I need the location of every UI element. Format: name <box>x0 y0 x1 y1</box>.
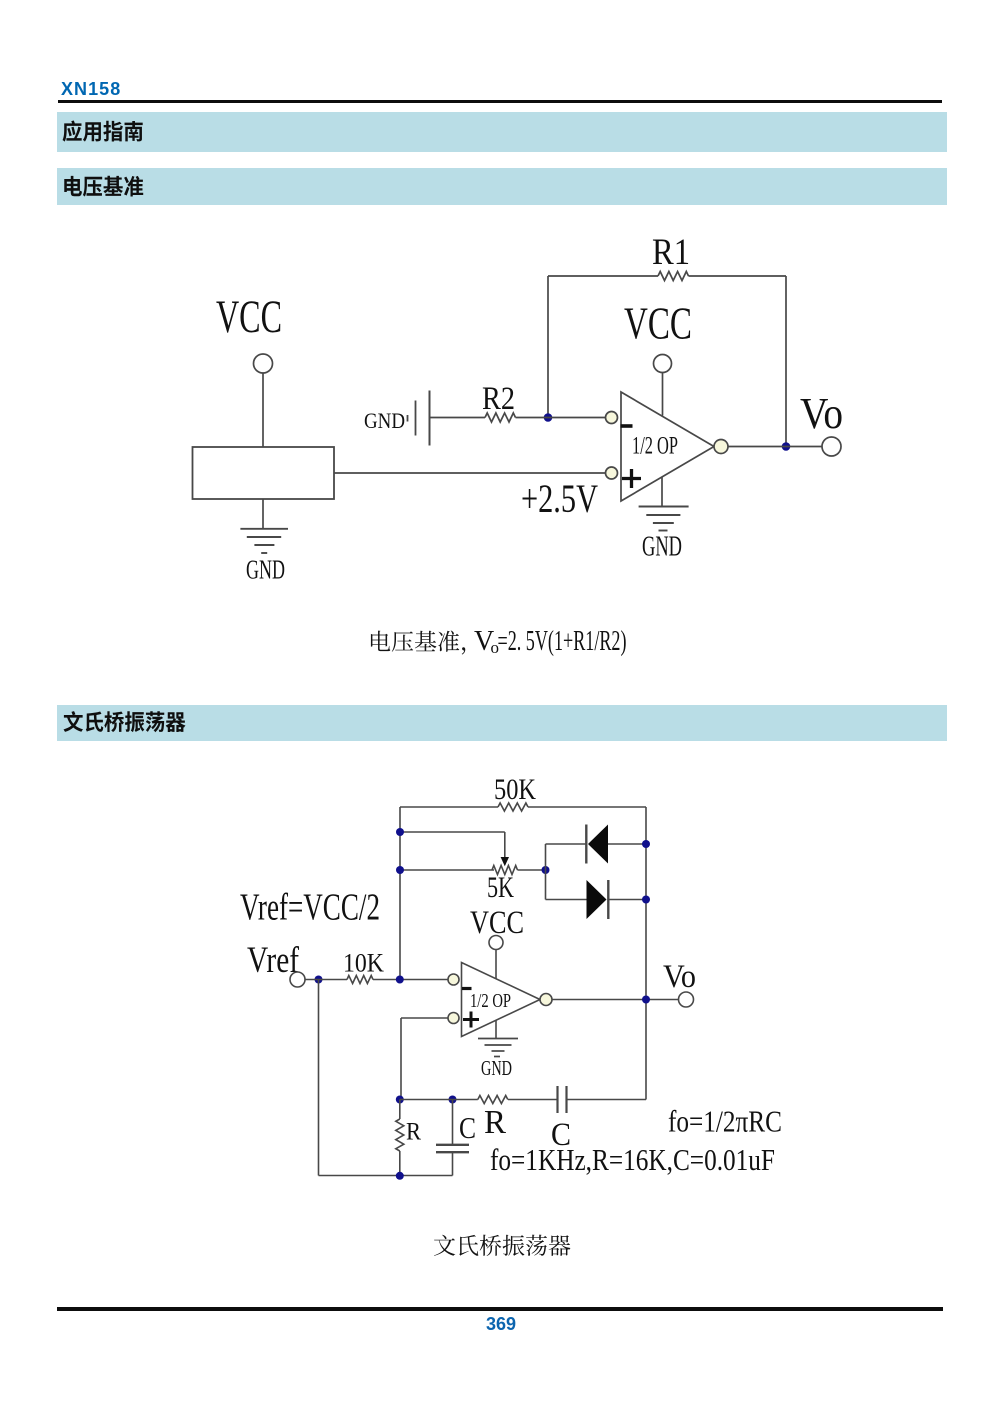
wire <box>689 275 787 277</box>
svg-text:GND: GND <box>642 532 682 563</box>
wire <box>400 806 498 808</box>
wire <box>318 980 320 1176</box>
svg-text:10K: 10K <box>343 949 384 978</box>
svg-text:R: R <box>484 1104 506 1141</box>
output terminal Vo <box>663 959 696 1007</box>
resistor R2 <box>482 381 516 422</box>
op-amp U1B 1/2 OP <box>448 963 552 1037</box>
capacitor C (parallel) <box>436 1100 476 1176</box>
svg-text:R1: R1 <box>652 232 690 273</box>
label Vref=VCC/2 <box>240 887 380 929</box>
svg-text:GND: GND <box>246 555 285 585</box>
wire <box>430 417 485 419</box>
wire <box>400 1099 478 1101</box>
node junction <box>396 976 404 984</box>
diode D2 (pointing right) <box>587 880 609 919</box>
label +2.5V <box>521 476 598 521</box>
wire <box>785 276 787 447</box>
wire <box>399 807 401 980</box>
svg-text:GND: GND <box>364 408 405 433</box>
output terminal Vo <box>800 389 843 456</box>
node junction <box>642 840 650 848</box>
node junction inverting input <box>544 413 553 422</box>
svg-text:GND: GND <box>481 1056 512 1080</box>
svg-text:Vo: Vo <box>800 389 843 438</box>
node junction <box>449 1096 457 1104</box>
footer page number 369 <box>486 1314 514 1335</box>
formula fo=1KHz values <box>490 1142 775 1177</box>
power VCC terminal (left) <box>216 291 282 447</box>
svg-text:R2: R2 <box>482 381 515 417</box>
formula fo=1/2piRC <box>668 1104 782 1139</box>
node junction <box>396 828 404 836</box>
potentiometer wiper arrow <box>501 857 509 866</box>
svg-text:+2.5V: +2.5V <box>521 476 598 521</box>
section banner: voltage reference <box>57 168 947 205</box>
ground (op-amp 2) <box>478 1021 518 1081</box>
section banner: application guide <box>57 112 947 152</box>
node junction <box>396 1096 404 1104</box>
svg-text:=2. 5V(1+R1/R2): =2. 5V(1+R1/R2) <box>498 626 627 657</box>
header rule <box>58 100 942 103</box>
wire <box>508 1099 557 1101</box>
wire <box>373 979 448 981</box>
wire <box>319 1175 453 1177</box>
svg-text:C: C <box>459 1110 476 1145</box>
voltage reference block U1 <box>193 447 335 499</box>
node junction <box>642 896 650 904</box>
svg-text:R: R <box>406 1119 421 1146</box>
svg-text:1/2 OP: 1/2 OP <box>632 433 678 460</box>
caption: Wien bridge oscillator <box>434 1235 570 1256</box>
wire <box>334 472 606 474</box>
caption: voltage reference formula <box>371 626 627 657</box>
op-amp U1A 1/2 OP <box>606 392 729 501</box>
wire <box>401 1018 448 1100</box>
svg-text:Vref=VCC/2: Vref=VCC/2 <box>240 887 380 929</box>
header logo XN158 <box>61 79 121 100</box>
wire <box>568 1099 647 1101</box>
resistor R (series) <box>478 1096 508 1142</box>
wire <box>548 275 658 277</box>
wire <box>552 999 679 1001</box>
resistor 5K <box>487 866 518 905</box>
power VCC terminal (op-amp 2) <box>470 905 524 979</box>
svg-text:5K: 5K <box>487 871 514 904</box>
svg-text:Vo: Vo <box>663 959 696 995</box>
wire <box>547 276 549 418</box>
resistor R1 <box>652 232 690 281</box>
node junction <box>396 1172 404 1180</box>
svg-text:fo=1/2πRC: fo=1/2πRC <box>668 1104 782 1139</box>
input terminal Vref <box>247 940 305 987</box>
wire <box>305 979 347 981</box>
wire <box>528 806 646 808</box>
resistor 10K <box>343 949 384 984</box>
svg-text:50K: 50K <box>494 773 536 806</box>
svg-text:1/2 OP: 1/2 OP <box>470 990 511 1012</box>
node junction output <box>782 442 791 451</box>
node junction <box>315 976 323 984</box>
svg-text:VCC: VCC <box>624 298 692 349</box>
capacitor C (series) <box>551 1086 571 1153</box>
wire (pot wiper) <box>400 832 505 858</box>
power VCC terminal (op-amp) <box>624 298 692 416</box>
svg-text:VCC: VCC <box>216 291 282 343</box>
resistor R (parallel) <box>396 1100 421 1177</box>
footer rule <box>57 1307 943 1311</box>
ground GND (left, rotated) <box>364 391 430 446</box>
section banner: Wien bridge oscillator <box>57 705 947 741</box>
wire <box>400 869 494 871</box>
node junction <box>642 996 650 1004</box>
wire <box>645 807 647 1100</box>
node junction <box>396 866 404 874</box>
node junction <box>542 866 550 874</box>
wire (diode branch) <box>546 844 647 900</box>
ground (op-amp) <box>639 477 689 563</box>
wire <box>516 417 606 419</box>
wire <box>518 869 546 871</box>
diode D1 (pointing left) <box>586 825 608 864</box>
resistor 50K <box>494 773 536 811</box>
wire <box>262 499 264 529</box>
svg-text:fo=1KHz,R=16K,C=0.01uF: fo=1KHz,R=16K,C=0.01uF <box>490 1142 775 1177</box>
ground (below block) <box>240 529 288 585</box>
wire <box>728 446 822 448</box>
